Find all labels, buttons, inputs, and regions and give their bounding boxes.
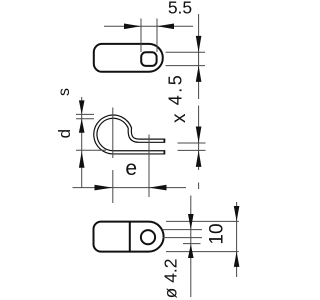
dimension 5.5 arrow pointing left: [157, 24, 174, 30]
svg-text:d: d: [55, 129, 74, 138]
dimension e line: [73, 187, 187, 189]
dimension 5.5 line: [104, 25, 193, 27]
dimension 5.5 extension line left: [140, 19, 142, 53]
dimension x arrow pointing up: [196, 150, 202, 167]
bottom view fold line: [129, 222, 131, 252]
dimension s arrow pointing down: [79, 100, 85, 114]
svg-text:e: e: [125, 157, 137, 180]
dimension 10 arrow pointing up: [234, 252, 240, 267]
side view centerline upper segment: [112, 108, 114, 159]
bottom view hole centerline: [163, 237, 203, 239]
dimension diameter 4.2 vertical line: [190, 196, 192, 298]
dimension s / d vertical line: [81, 97, 83, 188]
dimension 4.5 extension line bottom: [166, 65, 206, 67]
dimension 5.5 extension line right: [156, 19, 158, 53]
svg-text:ø 4.2: ø 4.2: [160, 258, 180, 298]
dimension x arrow pointing down: [196, 127, 202, 144]
dimension s extension tick outer: [76, 113, 94, 115]
dimension diameter 4.2 extension line bottom tangent: [183, 243, 201, 245]
dimension 10 arrow pointing down: [234, 206, 240, 221]
dimension d extension line bottom: [76, 149, 106, 151]
dimension x extension line top: [178, 142, 206, 144]
dimension diameter 4.2 arrow pointing up: [188, 244, 194, 258]
side view centerline lower segment / e left extension: [112, 170, 114, 203]
dimension 10 vertical line: [236, 202, 238, 277]
dimension s extension tick inner: [76, 118, 94, 120]
svg-text:x: x: [169, 113, 190, 123]
top view clamp outline: [94, 44, 163, 72]
dimension diameter 4.2 extension line top: [163, 229, 203, 231]
dimension s arrow pointing up (d top): [79, 119, 85, 133]
dimension 10 extension line bottom: [166, 251, 239, 253]
bottom view clamp outline: [94, 222, 164, 252]
dimension 10 extension line top: [166, 220, 239, 222]
dimension e right extension line: [148, 135, 150, 198]
bottom view hole: [141, 230, 155, 244]
dimension 4.5 extension line top: [166, 51, 206, 53]
dimension 4.5 / x shared vertical line: [198, 14, 200, 99]
svg-text:s: s: [56, 88, 73, 96]
dimension e arrow pointing right: [95, 185, 113, 191]
dimension diameter 4.2 arrow pointing down: [188, 214, 194, 230]
dimension d arrow pointing up from below: [79, 151, 85, 168]
dimension 5.5 arrow pointing right: [124, 24, 141, 30]
dimension x extension line bottom: [178, 149, 206, 151]
svg-text:4.5: 4.5: [166, 73, 186, 106]
dimension 4.5 arrow pointing down: [196, 36, 202, 52]
svg-text:5.5: 5.5: [168, 0, 192, 18]
svg-text:10: 10: [206, 223, 227, 244]
dimension e arrow pointing left: [149, 185, 167, 191]
side view clamp band: [95, 117, 165, 153]
top view slot hole: [141, 52, 156, 66]
dimension 4.5 arrow pointing up: [196, 66, 202, 82]
